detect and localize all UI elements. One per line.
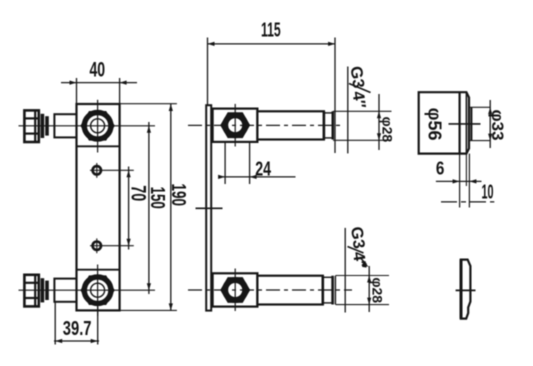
cup neck edge	[470, 107, 472, 140]
svg-text:φ28: φ28	[370, 278, 386, 304]
dimension phi33	[469, 100, 507, 148]
dimension 6	[436, 154, 482, 208]
plate outline	[77, 104, 120, 310]
bottom pipe threaded end	[323, 276, 336, 305]
dimension 24	[218, 143, 295, 185]
top boss hex ring	[82, 112, 114, 139]
top pad line	[77, 145, 120, 147]
top pipe block	[213, 109, 258, 142]
cup body outline	[419, 92, 469, 153]
svg-text:4″: 4″	[349, 90, 369, 110]
cup axis tick	[449, 123, 481, 125]
svg-text:4″: 4″	[349, 251, 369, 271]
flange plate edge-on	[206, 105, 211, 310]
svg-text:115: 115	[261, 20, 281, 42]
svg-text:10: 10	[482, 182, 494, 204]
svg-text:6: 6	[436, 158, 445, 178]
bottom pipe body	[257, 276, 322, 305]
dimension 10	[441, 182, 494, 204]
top bolt axis centerline	[19, 125, 156, 127]
top pipe threaded end	[324, 111, 333, 139]
dimension 190	[120, 104, 190, 311]
top pipe centerline	[188, 124, 344, 126]
dimension 150	[146, 122, 169, 294]
upper small hole	[93, 163, 101, 178]
bottom hex nut	[222, 278, 249, 301]
top bolt washer stack	[41, 114, 49, 138]
svg-text:φ56: φ56	[425, 108, 445, 141]
top dimension phi28	[333, 94, 395, 150]
top hex nut	[222, 114, 249, 137]
bottom hex vertical centerline	[234, 269, 236, 312]
dimension 40	[61, 59, 137, 105]
svg-text:G3: G3	[347, 65, 368, 89]
flange mid centerline tick	[196, 207, 223, 209]
svg-text:G3: G3	[347, 226, 368, 250]
svg-text:φ28: φ28	[379, 117, 395, 143]
top hex vertical centerline	[234, 104, 236, 147]
svg-text:24: 24	[255, 158, 271, 180]
bottom pad line	[77, 269, 120, 271]
bottom G3/4 label	[345, 226, 369, 313]
svg-text:150: 150	[146, 187, 169, 209]
dimension 115	[208, 20, 336, 154]
bottom pipe centerline	[188, 289, 352, 291]
top G3/4 label	[347, 65, 371, 153]
lens cover profile	[461, 260, 471, 319]
bottom bolt washer stack	[41, 278, 49, 302]
svg-text:39.7: 39.7	[63, 318, 92, 340]
dimension 39.7	[54, 302, 99, 345]
bottom bolt head	[24, 275, 38, 307]
top bolt cylinder	[54, 114, 76, 137]
bottom bolt cylinder	[54, 279, 76, 302]
bottom dimension phi28	[336, 266, 390, 312]
svg-text:190: 190	[167, 184, 190, 207]
svg-text:φ33: φ33	[488, 110, 507, 141]
lens axis tick	[456, 289, 476, 291]
top boss vertical centerline	[97, 100, 99, 153]
lower small hole	[93, 238, 101, 253]
dimension 70	[90, 167, 150, 250]
top pipe body	[257, 111, 324, 139]
bottom boss vertical centerline	[97, 265, 99, 317]
bottom pipe block	[213, 273, 258, 306]
top bolt head	[24, 110, 38, 142]
svg-text:40: 40	[90, 59, 106, 82]
bottom boss hex ring	[82, 277, 114, 304]
bottom bolt axis centerline	[19, 289, 156, 291]
